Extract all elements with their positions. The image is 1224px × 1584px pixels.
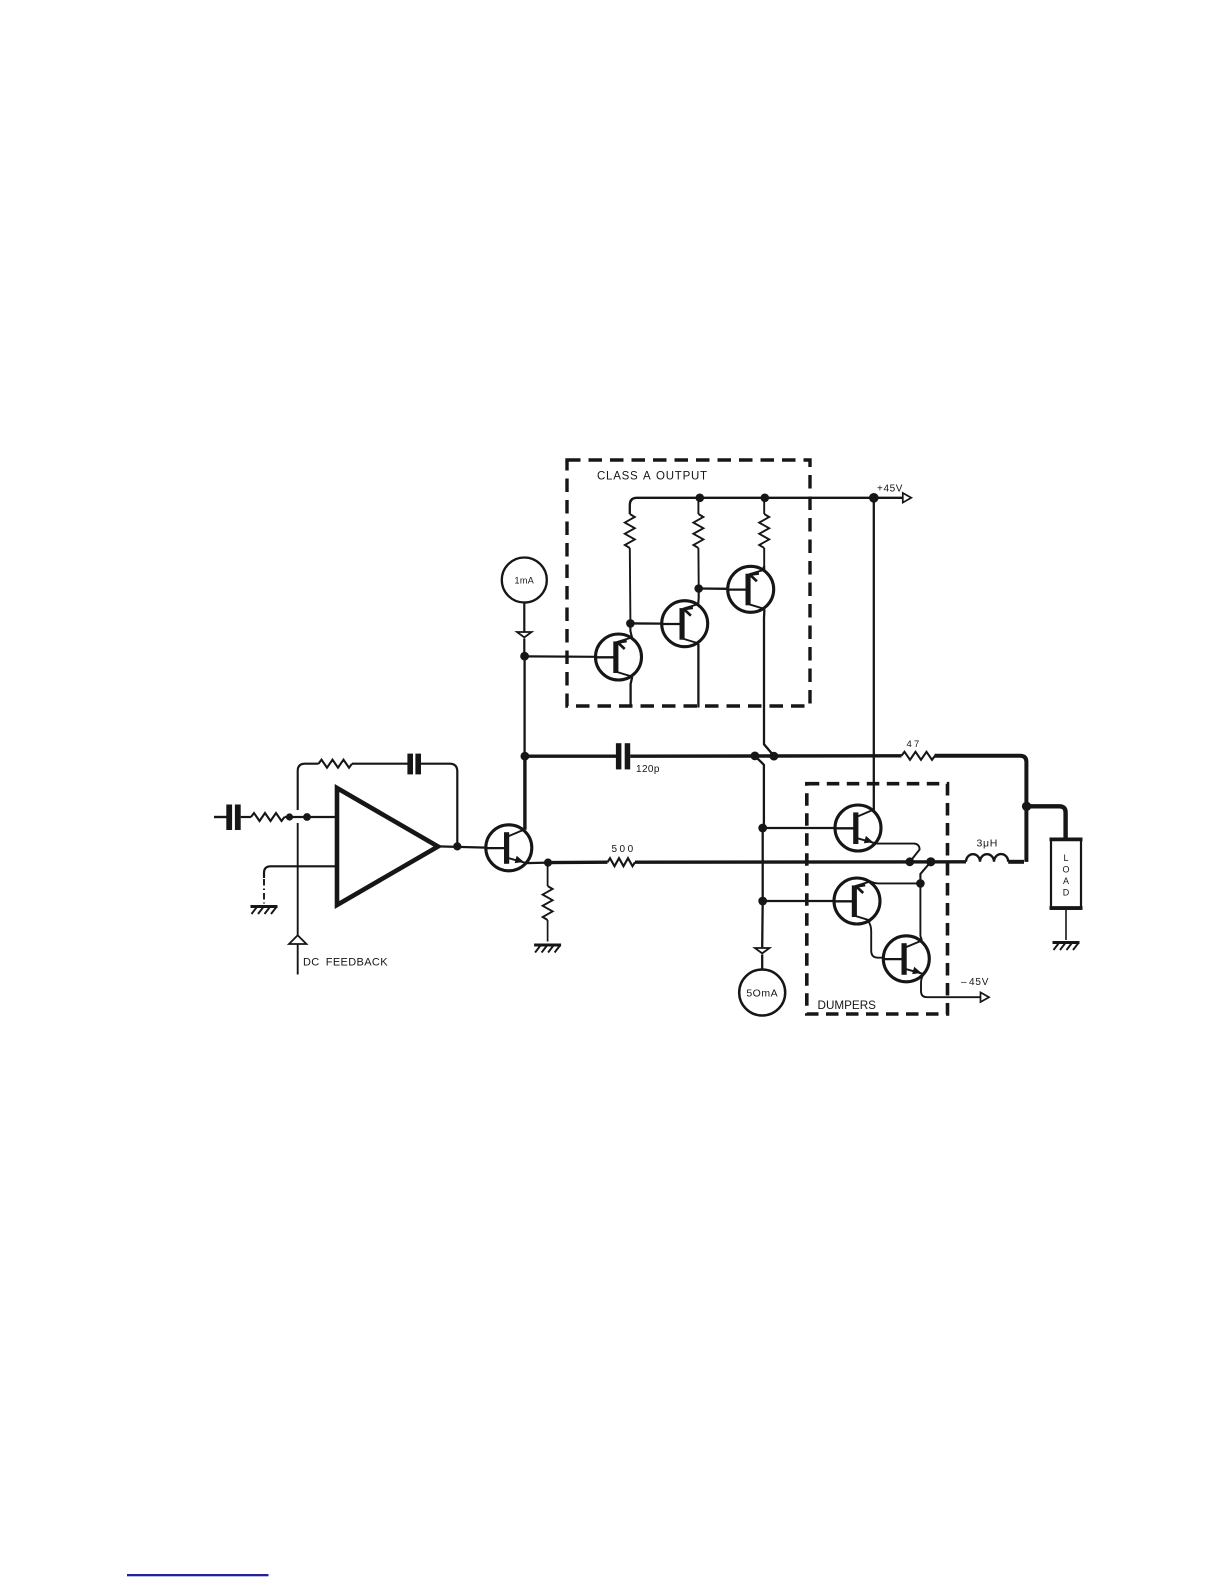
svg-text:5OmA: 5OmA (746, 988, 778, 1000)
svg-text:– 45V: – 45V (961, 977, 989, 988)
svg-text:+45V: +45V (877, 484, 903, 495)
svg-text:120p: 120p (636, 764, 660, 775)
svg-text:D: D (1063, 888, 1070, 898)
svg-text:47: 47 (907, 739, 922, 750)
svg-text:L: L (1063, 853, 1068, 863)
svg-text:3μH: 3μH (977, 838, 999, 850)
svg-text:CLASS A OUTPUT: CLASS A OUTPUT (597, 471, 708, 483)
svg-text:1mA: 1mA (514, 576, 534, 586)
svg-text:O: O (1062, 865, 1069, 875)
svg-text:500: 500 (612, 844, 636, 855)
svg-text:DUMPERS: DUMPERS (818, 999, 877, 1012)
svg-text:A: A (1063, 876, 1069, 886)
svg-text:DC FEEDBACK: DC FEEDBACK (303, 957, 388, 969)
